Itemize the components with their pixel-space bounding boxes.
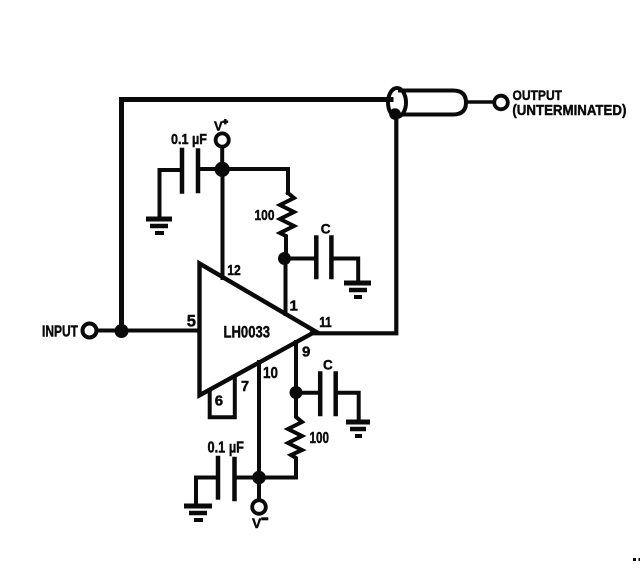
svg-text:5: 5 <box>187 313 196 331</box>
svg-text:12: 12 <box>227 262 241 279</box>
svg-text:11: 11 <box>319 314 332 331</box>
svg-text:V: V <box>252 515 262 531</box>
svg-text:0.1 µF: 0.1 µF <box>171 132 207 148</box>
svg-text:V: V <box>214 118 223 133</box>
svg-text:6: 6 <box>215 393 223 410</box>
svg-text:10: 10 <box>263 365 278 382</box>
svg-text:C: C <box>321 222 331 237</box>
svg-text:9: 9 <box>302 344 310 361</box>
svg-text:0.1 µF: 0.1 µF <box>208 439 245 456</box>
svg-text:7: 7 <box>241 379 249 395</box>
svg-text:LH0033: LH0033 <box>224 324 271 342</box>
svg-text:(UNTERMINATED): (UNTERMINATED) <box>512 103 626 119</box>
svg-text:100: 100 <box>310 430 330 447</box>
svg-text:INPUT: INPUT <box>42 323 78 340</box>
svg-text:C: C <box>323 357 333 372</box>
svg-text:100: 100 <box>255 207 275 224</box>
svg-text:OUTPUT: OUTPUT <box>513 87 563 103</box>
svg-text:1: 1 <box>290 298 298 315</box>
